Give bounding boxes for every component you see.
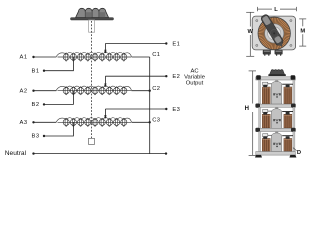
ganged shaft dashed line <box>91 21 93 138</box>
wire wiper to E3 <box>105 108 166 110</box>
svg-text:E2: E2 <box>172 74 180 80</box>
autotransformer winding T3 <box>56 118 132 127</box>
terminal A1 <box>20 55 35 61</box>
toroid winding (top view) <box>258 17 290 49</box>
neutral bus wire <box>149 57 151 154</box>
svg-text:B1: B1 <box>32 68 40 74</box>
svg-text:Output: Output <box>186 81 204 87</box>
tap terminal B1 <box>32 68 46 74</box>
svg-text:M: M <box>300 28 305 34</box>
wire tap B1 <box>44 57 73 71</box>
dimension D <box>293 148 297 151</box>
dimension H <box>249 71 256 155</box>
output terminal E2 <box>165 74 180 80</box>
gang stack knob <box>268 69 286 76</box>
junction C2 <box>149 90 151 92</box>
variac unit 3 (front view) <box>259 132 295 152</box>
wire A3 to winding <box>34 121 57 123</box>
output terminal E3 <box>165 107 180 113</box>
svg-text:AC: AC <box>190 68 198 74</box>
svg-text:H: H <box>245 106 249 112</box>
wire tap B2 <box>44 91 73 105</box>
wiper contact 2 <box>104 76 106 87</box>
svg-text:D: D <box>297 150 301 156</box>
svg-text:Variable: Variable <box>184 75 205 81</box>
svg-text:B2: B2 <box>32 102 40 108</box>
wire winding end to bus <box>132 56 150 58</box>
svg-text:A2: A2 <box>20 88 28 94</box>
dimension W <box>246 12 254 56</box>
wiper contact 1 <box>104 44 106 54</box>
control knob <box>71 8 114 20</box>
svg-text:C1: C1 <box>152 52 160 58</box>
tap terminal B3 <box>32 134 46 140</box>
wiper arm / knob (top view) <box>260 14 286 49</box>
stack plate 2 <box>255 104 295 108</box>
dimension M <box>299 19 306 46</box>
label: AC Variable Output <box>184 68 205 86</box>
wire winding end to bus <box>132 90 150 92</box>
knob shaft <box>89 20 95 32</box>
variac unit 2 (front view) <box>259 107 295 128</box>
wire wiper to E1 <box>105 43 166 45</box>
variac unit 1 (front view) <box>259 80 295 104</box>
wire wiper to E2 <box>105 75 166 77</box>
stack plate 3 <box>255 128 295 132</box>
wire tap B3 <box>44 122 73 136</box>
svg-text:L: L <box>274 7 278 13</box>
svg-text:C3: C3 <box>152 118 160 124</box>
neutral terminal and wire <box>5 150 167 157</box>
autotransformer winding T2 <box>56 86 132 95</box>
wire winding end to bus <box>132 121 150 123</box>
junction C3 <box>149 121 151 123</box>
wiper contact 3 <box>104 109 106 118</box>
svg-text:C2: C2 <box>152 86 160 92</box>
svg-text:Neutral: Neutral <box>5 150 27 157</box>
svg-text:E1: E1 <box>172 42 180 48</box>
wire A1 to winding <box>34 56 57 58</box>
autotransformer winding T1 <box>56 52 132 61</box>
stack bottom plate <box>255 152 296 158</box>
output terminal E1 <box>165 42 180 48</box>
wire A2 to winding <box>34 90 57 92</box>
terminal A3 <box>20 120 35 126</box>
svg-text:A1: A1 <box>20 55 28 61</box>
variac top view body <box>252 16 295 50</box>
terminal blocks (top view) <box>263 50 282 56</box>
stack top plate <box>256 75 296 80</box>
tap terminal B2 <box>32 102 46 108</box>
svg-text:B3: B3 <box>32 134 40 140</box>
shaft coupling square <box>89 138 95 144</box>
svg-text:W: W <box>248 29 254 35</box>
svg-text:E3: E3 <box>172 107 180 113</box>
svg-text:A3: A3 <box>20 120 28 126</box>
terminal A2 <box>20 88 35 94</box>
dimension L <box>258 7 297 11</box>
